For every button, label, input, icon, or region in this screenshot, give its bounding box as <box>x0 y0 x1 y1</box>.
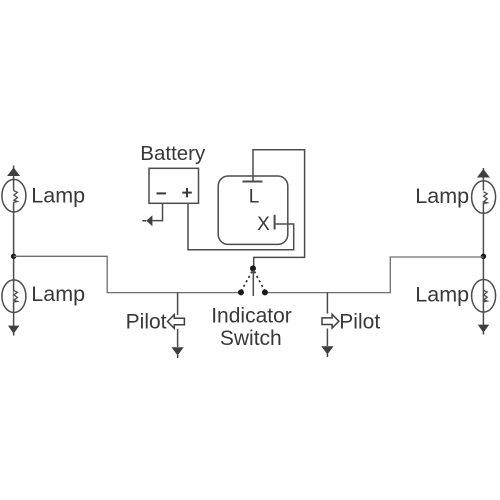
svg-text:Pilot: Pilot <box>126 311 167 334</box>
lamp L4 (bottom right) <box>472 280 496 313</box>
wire left bus: lamps junction to switch left contact <box>14 256 241 292</box>
ground arrow (right pilot) <box>321 346 333 357</box>
svg-text:Lamp: Lamp <box>31 183 85 207</box>
wire right lamp column <box>482 168 484 326</box>
wire left pilot to ground <box>177 329 179 347</box>
pilot lamp right (open arrow) <box>322 314 339 328</box>
terminal L bar <box>243 181 263 183</box>
svg-text:Pilot: Pilot <box>339 310 380 333</box>
lamp L1 (top left) <box>2 179 26 212</box>
svg-text:L: L <box>249 186 260 207</box>
svg-text:Lamp: Lamp <box>415 283 469 307</box>
switch contact left node <box>238 289 244 295</box>
lamp L3 (top right) <box>472 181 496 214</box>
pilot lamp left (open arrow) <box>168 315 185 329</box>
svg-text:Indicator: Indicator <box>211 304 292 327</box>
svg-text:Switch: Switch <box>220 327 282 350</box>
battery terminal - <box>157 192 167 194</box>
wire right bus: switch right contact to right lamps junction <box>265 257 483 293</box>
node junction left lamps <box>11 254 16 259</box>
flasher unit U1 <box>218 176 288 244</box>
arrow up (left lamps direction) <box>7 168 20 177</box>
lamp L2 (bottom left) <box>2 280 26 313</box>
switch throw dashed left <box>242 271 253 290</box>
svg-text:X: X <box>257 214 270 235</box>
switch actuator lever <box>252 270 254 296</box>
wire terminal L to switch common <box>253 150 305 266</box>
battery BT1 <box>149 168 199 203</box>
arrow down (right lamps direction) <box>478 325 489 335</box>
indicator switch common node <box>250 265 256 271</box>
wire battery + to terminal X <box>188 203 294 249</box>
terminal X bar <box>274 215 276 230</box>
battery terminal + <box>182 188 192 198</box>
wire right pilot to ground <box>326 329 328 347</box>
node junction right lamps <box>481 254 486 259</box>
svg-text:Lamp: Lamp <box>415 184 469 208</box>
switch contact right node <box>262 289 268 295</box>
wire left pilot drop <box>177 293 179 315</box>
wire left lamp column <box>13 166 15 327</box>
arrow down (left lamps direction) <box>8 326 19 336</box>
arrow up (right lamps direction) <box>477 169 490 178</box>
wire right pilot drop <box>326 293 328 314</box>
wire battery - to chassis <box>152 203 162 220</box>
chassis ground arrow (battery) <box>142 215 152 226</box>
switch throw dashed right <box>254 271 264 290</box>
ground arrow (left pilot) <box>172 347 184 358</box>
svg-text:Lamp: Lamp <box>31 282 85 306</box>
svg-text:Battery: Battery <box>140 142 206 165</box>
